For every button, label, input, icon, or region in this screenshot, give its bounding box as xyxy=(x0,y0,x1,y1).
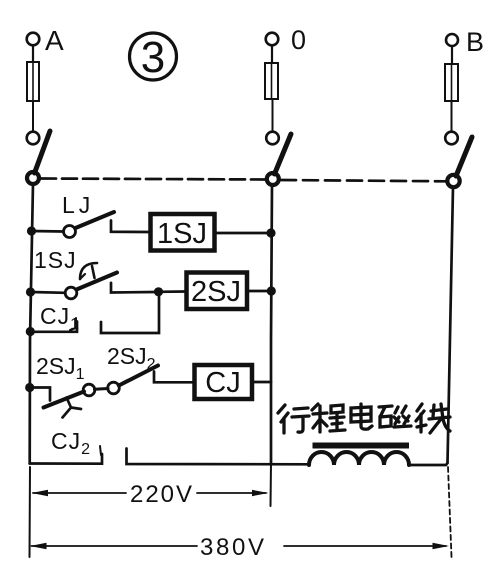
dimension extension line right xyxy=(448,467,452,557)
svg-text:2SJ1: 2SJ1 xyxy=(36,353,85,383)
svg-text:B: B xyxy=(466,27,484,57)
node rung2-right xyxy=(267,286,276,295)
node rung2-mid xyxy=(154,287,163,296)
wire xyxy=(247,290,268,293)
contact CJ2 stub xyxy=(127,449,309,465)
contact 2SJ1 fork xyxy=(63,398,82,418)
relay coil box CJ xyxy=(195,365,253,399)
switch blade A xyxy=(35,131,51,173)
contact 2SJ1 circle xyxy=(83,384,95,396)
wire xyxy=(111,221,150,233)
contact 1SJ delay arc xyxy=(80,263,97,279)
wire xyxy=(30,388,50,401)
contact CJ1 parallel branch wire xyxy=(30,322,77,332)
svg-text:CJ2: CJ2 xyxy=(51,428,91,458)
bus wire 0 to B (dashed) xyxy=(281,180,446,181)
switch hinge circle 0 xyxy=(267,173,279,185)
node rung3-left xyxy=(25,383,34,392)
switch blade 0 xyxy=(275,134,292,174)
bottom wire left xyxy=(30,454,102,464)
node CJ1-left xyxy=(26,327,35,336)
svg-text:1SJ: 1SJ xyxy=(157,218,207,250)
wire xyxy=(32,101,34,132)
wire xyxy=(272,99,274,132)
tick after CJ1 xyxy=(70,318,76,330)
wire xyxy=(32,230,64,233)
svg-text:380V: 380V xyxy=(200,534,264,561)
char xing xyxy=(278,405,288,433)
svg-text:220V: 220V xyxy=(130,481,192,508)
char tie xyxy=(416,404,426,432)
switch hinge circle A xyxy=(27,172,39,184)
char ci xyxy=(379,406,392,427)
dimension extension line left xyxy=(29,467,32,557)
contact 1SJ delay tick xyxy=(92,266,95,278)
char cheng xyxy=(312,404,327,432)
char dian xyxy=(351,404,372,429)
switch hinge circle B xyxy=(447,175,459,187)
fuse FU-A xyxy=(27,62,39,101)
wire xyxy=(215,232,269,235)
node rung2-left xyxy=(26,287,35,296)
dimension extension line middle xyxy=(270,463,273,506)
wire xyxy=(271,46,273,64)
wire xyxy=(451,47,453,65)
dimension 220V arrow left xyxy=(32,490,49,496)
relay coil box 2SJ xyxy=(187,273,248,310)
terminal B xyxy=(446,34,458,46)
wire xyxy=(451,101,453,132)
wire xyxy=(32,46,34,63)
electromagnet core bar xyxy=(313,443,410,449)
left rail wire xyxy=(30,184,33,464)
figure number 3 xyxy=(130,33,177,82)
wire xyxy=(159,290,187,293)
svg-text:3: 3 xyxy=(141,33,165,82)
dimension 380V arrow right xyxy=(284,545,446,547)
fuse FU-0 xyxy=(265,63,278,99)
switch contact circle A xyxy=(27,132,40,145)
node rung1-right xyxy=(266,228,275,237)
tick after CJ2 xyxy=(100,446,101,455)
contact LJ circle xyxy=(64,226,76,238)
wire xyxy=(111,283,155,293)
switch contact circle 0 xyxy=(266,132,279,145)
node rung1-left xyxy=(27,226,36,235)
dimension 220V arrow right xyxy=(197,492,266,494)
contact 1SJ circle xyxy=(65,287,77,299)
contact CJ1 gap stub xyxy=(101,292,159,333)
fuse FU-B xyxy=(445,64,458,101)
dimension 380V arrow left xyxy=(30,543,47,549)
contact link wire xyxy=(95,387,109,391)
wire xyxy=(31,291,66,294)
middle rail wire xyxy=(271,185,272,463)
label electromagnet (hand-drawn CJK: 行程电磁铁) xyxy=(278,404,450,433)
wire xyxy=(252,381,271,384)
electromagnet coil xyxy=(309,452,409,465)
switch contact circle B xyxy=(445,132,458,145)
contact 2SJ2 circle xyxy=(108,382,120,394)
contact 2SJ2 blade xyxy=(119,366,158,386)
terminal A xyxy=(27,33,40,46)
svg-text:A: A xyxy=(45,25,64,56)
switch blade B xyxy=(456,137,472,176)
contact 1SJ blade xyxy=(77,273,118,290)
svg-text:LJ: LJ xyxy=(62,192,94,218)
wire xyxy=(154,372,194,383)
svg-text:CJ: CJ xyxy=(205,367,240,399)
terminal 0 xyxy=(266,33,279,46)
svg-text:0: 0 xyxy=(291,25,306,55)
contact 2SJ1 blade xyxy=(44,392,85,408)
svg-text:2SJ: 2SJ xyxy=(191,276,241,308)
contact LJ blade xyxy=(76,212,115,228)
relay coil box 1SJ xyxy=(151,214,215,251)
right rail wire xyxy=(448,187,454,463)
wire xyxy=(409,463,448,465)
bus wire A to 0 (dashed) xyxy=(41,179,266,180)
svg-text:1SJ: 1SJ xyxy=(34,247,77,273)
